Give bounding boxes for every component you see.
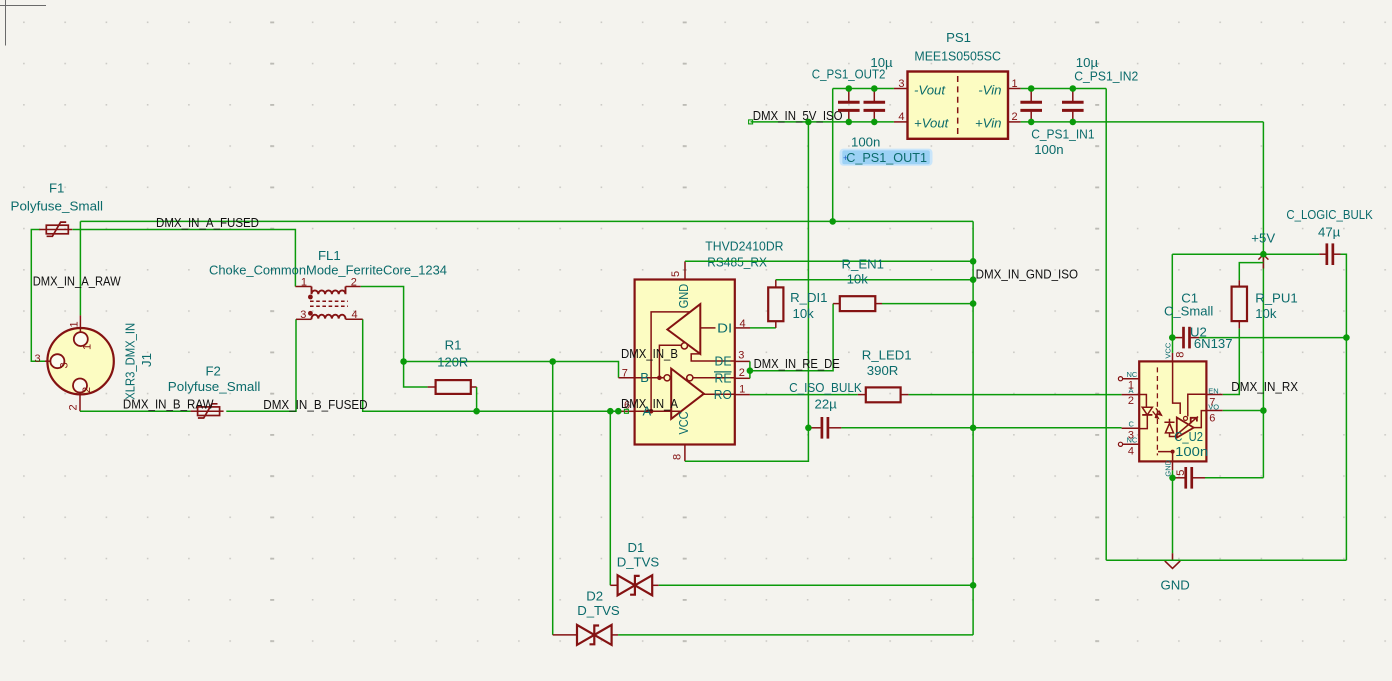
- THVD pin name RO: [714, 387, 732, 402]
- diode D1 D_TVS: [618, 575, 653, 595]
- opto pin 5 stub GND: [1172, 461, 1174, 470]
- svg-text:10k: 10k: [847, 272, 869, 287]
- net label anchor square DMX_IN_A: [624, 409, 628, 413]
- svg-text:C_PS1_OUT2: C_PS1_OUT2: [812, 66, 886, 81]
- THVD pin 1 stub: [735, 394, 750, 396]
- wire net GND_ISO vertical: [972, 221, 974, 635]
- ref U2: [1190, 324, 1207, 339]
- resistor R_EN1 10k: [840, 296, 876, 311]
- D1 lead left: [610, 584, 617, 586]
- svg-text:Polyfuse_Small: Polyfuse_Small: [168, 379, 261, 394]
- THVD pin name DI: [717, 320, 732, 335]
- opto pin name NC (1): [1127, 370, 1138, 379]
- IC U2 6N137 body: [1139, 361, 1206, 461]
- PS1 pin name -Vin: [978, 82, 1001, 97]
- wire DMX_IN_B_FUSED from FL1 pin4: [363, 319, 619, 411]
- resistor R_DI1 10k: [768, 287, 783, 321]
- opto pin 2 stub: [1122, 394, 1140, 396]
- R_LED1 lead right: [901, 394, 909, 396]
- ref C_LOGIC_BULK: [1286, 207, 1372, 222]
- svg-text:-Vin: -Vin: [978, 82, 1001, 97]
- ref R1: [445, 338, 462, 353]
- svg-text:GND: GND: [676, 284, 691, 309]
- wire R1 right to net A: [476, 387, 478, 411]
- wire +5V down to C1: [1171, 254, 1173, 337]
- power label +5V: [1251, 231, 1275, 246]
- R_PU1 lead bottom: [1238, 321, 1240, 329]
- THVD RE bubble: [687, 375, 693, 381]
- PS1 pin number 1: [1012, 78, 1018, 90]
- R_EN1 lead right: [875, 303, 882, 305]
- wire -Vin to GND rail vertical: [1105, 89, 1107, 561]
- capacitor C_PS1_IN2: [1062, 89, 1084, 122]
- ref RS485_RX: [707, 255, 767, 270]
- svg-text:DMX_IN_B: DMX_IN_B: [621, 346, 678, 361]
- polyfuse F1: [39, 222, 72, 236]
- FL1 pin1 stub: [295, 286, 311, 288]
- svg-text:C_PS1_IN2: C_PS1_IN2: [1074, 68, 1138, 83]
- IC PS1 MEE1S0505SC body: [908, 72, 1009, 139]
- label DMX_IN_RX: [1231, 379, 1298, 394]
- svg-text:6: 6: [1209, 412, 1215, 424]
- THVD pin 8 stub: [684, 445, 686, 462]
- ref C_PS1_OUT1 (highlighted): [846, 150, 927, 165]
- ref C_U2: [1174, 429, 1203, 444]
- opto pin 3 stub: [1122, 427, 1140, 429]
- svg-text:R_EN1: R_EN1: [842, 256, 885, 271]
- net label anchor square DMX_IN_5V_ISO: [749, 120, 753, 124]
- svg-text:4: 4: [1128, 445, 1134, 457]
- svg-text:R_PU1: R_PU1: [1255, 290, 1298, 305]
- THVD DE internal staircase: [691, 354, 735, 361]
- wire D2 to GND_ISO: [618, 634, 973, 636]
- FL1 pin number 4: [352, 309, 358, 321]
- svg-text:6N137: 6N137: [1194, 336, 1233, 351]
- polyfuse F2: [191, 404, 224, 418]
- wire DMX_IN_A_RAW pin3 to F1: [31, 230, 45, 362]
- wire DMX_IN_A_FUSED vertical from XLR pin1: [79, 221, 81, 315]
- svg-text:XLR3_DMX_IN: XLR3_DMX_IN: [123, 323, 138, 400]
- THVD RE internal line: [693, 377, 735, 379]
- wire C1 right to GND vertical: [1199, 337, 1346, 339]
- wire R_PU1 top to +5V: [1239, 263, 1263, 281]
- opto pin 8 stub VCC: [1172, 353, 1174, 362]
- svg-text:B: B: [640, 370, 649, 385]
- value 10k (R_EN1): [847, 272, 869, 287]
- J1 pin number 3: [35, 353, 41, 365]
- IC U-THVD2410DR body: [635, 280, 735, 445]
- svg-text:8: 8: [672, 454, 684, 460]
- svg-text:J1: J1: [139, 353, 154, 367]
- svg-text:DMX_IN_A_FUSED: DMX_IN_A_FUSED: [156, 215, 259, 230]
- value Choke_CommonMode_FerriteCore_1234: [209, 262, 447, 277]
- value C_Small: [1164, 303, 1213, 318]
- opto LED cathode bar: [1142, 414, 1152, 416]
- svg-text:C_PS1_IN1: C_PS1_IN1: [1031, 127, 1094, 142]
- label DMX_IN_B_RAW: [123, 397, 214, 412]
- wire R_EN1 to GND_ISO: [882, 303, 973, 305]
- opto buffer triangle: [1177, 418, 1194, 438]
- THVD internal node dot A: [649, 409, 654, 414]
- FL1 polarity dots: [308, 295, 313, 316]
- svg-text:4: 4: [352, 309, 358, 321]
- value 10k (R_PU1): [1255, 306, 1277, 321]
- svg-text:C_U2: C_U2: [1174, 429, 1203, 444]
- opto GND internal: [1158, 452, 1173, 462]
- svg-text:VCC: VCC: [1163, 342, 1172, 358]
- opto internal gnd dot: [1171, 450, 1175, 454]
- opto pin1 NC circle: [1118, 377, 1122, 381]
- FL1 pin2 stub: [346, 286, 361, 288]
- svg-text:DMX_IN_GND_ISO: DMX_IN_GND_ISO: [976, 267, 1078, 282]
- resistor R_LED1 390R: [866, 387, 901, 402]
- ref D2: [586, 588, 603, 603]
- opto pin name VO: [1208, 403, 1219, 412]
- capacitor C_ISO_BULK 22u: [808, 417, 841, 439]
- label DMX_IN_B_FUSED: [263, 397, 367, 412]
- THVD pin name RE: [715, 370, 732, 385]
- power label GND: [1161, 577, 1190, 592]
- svg-text:1: 1: [739, 384, 745, 396]
- PS1 isolation dashed line: [957, 76, 959, 135]
- wire R_PU1 bottom to EN pin7: [1223, 329, 1240, 395]
- svg-text:PS1: PS1: [946, 30, 971, 45]
- THVD pin number 8: [672, 454, 684, 460]
- opto output slash: [1175, 417, 1198, 436]
- THVD pin name DE: [715, 354, 732, 369]
- value 100n (C_PS1_OUT1): [851, 134, 880, 149]
- PS1 pin 4 stub: [894, 121, 908, 123]
- wire C_U2 right to +5V vertical: [1205, 477, 1263, 479]
- svg-text:47µ: 47µ: [1318, 224, 1341, 239]
- svg-text:+: +: [843, 153, 848, 163]
- THVD pin number 5: [670, 271, 682, 277]
- ref C_PS1_IN1: [1031, 127, 1094, 142]
- wire +Vin rail right: [1021, 121, 1264, 123]
- J1 pad label 2: [81, 387, 93, 393]
- THVD pin number 3: [738, 350, 744, 362]
- svg-text:R_LED1: R_LED1: [862, 347, 912, 362]
- svg-text:3: 3: [59, 362, 71, 368]
- svg-text:DMX_IN_RE_DE: DMX_IN_RE_DE: [754, 356, 840, 371]
- svg-text:3: 3: [35, 353, 41, 365]
- value 100n (C_U2): [1175, 444, 1208, 459]
- ref C1: [1181, 290, 1198, 305]
- R1 lead right: [471, 386, 477, 388]
- svg-text:FL1: FL1: [318, 248, 341, 263]
- svg-text:C: C: [1129, 419, 1135, 428]
- diode D2 D_TVS: [577, 625, 612, 645]
- THVD RO internal line: [704, 393, 735, 395]
- wire FL1 pin2 to DMX_IN_B: [361, 287, 404, 362]
- opto light arrows: [1153, 408, 1162, 418]
- value D_TVS (D2): [577, 603, 620, 618]
- PS1 pin number 3: [898, 78, 904, 90]
- wire THVD pin8 VCC to 5V_ISO: [685, 122, 809, 461]
- wire GND node down: [1172, 478, 1174, 554]
- opto pin number 6: [1209, 412, 1215, 424]
- svg-text:R1: R1: [445, 338, 462, 353]
- svg-text:3: 3: [738, 350, 744, 362]
- power symbol +5V: [1258, 255, 1268, 269]
- opto pin4 NC circle: [1118, 442, 1122, 446]
- opto pin name A: [1129, 386, 1134, 395]
- THVD B input line: [635, 377, 664, 379]
- svg-text:D_TVS: D_TVS: [577, 603, 620, 618]
- value 6N137: [1194, 336, 1233, 351]
- PS1 pin 1 stub: [1008, 88, 1021, 90]
- THVD pin 5 stub: [684, 261, 686, 279]
- FL1 pin3 stub: [296, 318, 312, 320]
- R_EN1 lead left: [833, 303, 840, 305]
- THVD driver triangle: [667, 304, 700, 354]
- J1 pad label 1: [82, 344, 94, 350]
- label DMX_IN_A_RAW: [33, 273, 121, 288]
- svg-text:120R: 120R: [437, 354, 468, 369]
- wire -Vout to A_FUSED junction: [832, 89, 834, 222]
- J1 pin number 1: [69, 321, 81, 327]
- connector J1 XLR body: [47, 328, 113, 394]
- wire pin5 to C_U2 node: [1172, 470, 1174, 478]
- value 22µ: [815, 396, 838, 411]
- svg-text:3: 3: [300, 309, 306, 321]
- ref C_PS1_IN2: [1074, 68, 1138, 83]
- THVD DI internal line: [700, 327, 715, 329]
- svg-text:Polyfuse_Small: Polyfuse_Small: [11, 199, 104, 214]
- svg-text:2: 2: [1128, 395, 1134, 407]
- svg-text:-Vout: -Vout: [914, 82, 946, 97]
- svg-text:RO: RO: [714, 387, 732, 402]
- svg-text:DMX_IN_RX: DMX_IN_RX: [1231, 379, 1298, 394]
- value 100n (C_PS1_IN1): [1034, 142, 1063, 157]
- opto pin name GND: [1163, 459, 1172, 476]
- THVD pin 6 stub: [620, 410, 635, 412]
- opto pin number 2: [1128, 395, 1134, 407]
- THVD pin 2 stub: [735, 377, 750, 379]
- J1 pin3 circle: [50, 354, 64, 368]
- ref J1: [139, 353, 154, 367]
- capacitor C_LOGIC_BULK 47u: [1319, 243, 1340, 265]
- svg-text:7: 7: [622, 368, 628, 380]
- THVD driver output bubble: [681, 343, 687, 349]
- svg-text:GND: GND: [1163, 459, 1172, 476]
- label DMX_IN_RE_DE: [754, 356, 840, 371]
- svg-text:1: 1: [1012, 78, 1018, 90]
- THVD pin number 1: [739, 384, 745, 396]
- value D_TVS (D1): [617, 554, 660, 569]
- cursor mark: [843, 153, 848, 163]
- svg-text:DMX_IN_5V_ISO: DMX_IN_5V_ISO: [753, 108, 843, 123]
- THVD RE overline: [714, 371, 732, 373]
- wire GND rail: [1106, 559, 1346, 561]
- THVD B internal path: [659, 345, 681, 378]
- ref R_EN1: [842, 256, 885, 271]
- svg-text:4: 4: [898, 111, 904, 123]
- FL1 pin4 stub: [346, 318, 363, 320]
- value 120R: [437, 354, 468, 369]
- THVD internal node dot B: [657, 376, 662, 381]
- ref R_DI1: [790, 290, 827, 305]
- FL1 pin number 2: [351, 276, 357, 288]
- D1 lead right: [652, 584, 659, 586]
- svg-text:390R: 390R: [867, 363, 899, 378]
- opto pin number 5: [1175, 470, 1187, 476]
- wire RE_DE to R_EN1: [750, 304, 833, 371]
- svg-text:C_LOGIC_BULK: C_LOGIC_BULK: [1286, 207, 1372, 222]
- opto LED cathode path: [1139, 415, 1147, 429]
- wire R_LED1 to opto pin2: [909, 394, 1122, 396]
- THVD B input bubble: [664, 375, 670, 381]
- J1 pad label 3: [59, 362, 71, 368]
- opto pin number 4: [1128, 445, 1134, 457]
- wire C_LOGIC_BULK to GND vertical: [1341, 254, 1347, 560]
- ref C_PS1_OUT2: [812, 66, 886, 81]
- svg-text:D1: D1: [628, 540, 645, 555]
- PS1 pin name +Vout: [914, 115, 950, 130]
- label DMX_IN_B: [621, 346, 678, 361]
- inductor FL1 winding 2: [312, 315, 346, 320]
- THVD A input line: [635, 410, 681, 412]
- R_DI1 lead bottom: [775, 321, 777, 328]
- label DMX_IN_A_FUSED: [156, 215, 259, 230]
- svg-text:2: 2: [68, 404, 80, 410]
- R1 lead left: [428, 386, 436, 388]
- svg-text:GND: GND: [1161, 577, 1190, 592]
- svg-text:100n: 100n: [1175, 444, 1208, 459]
- opto pin name C: [1129, 419, 1135, 428]
- svg-text:F1: F1: [49, 181, 64, 196]
- svg-text:MEE1S0505SC: MEE1S0505SC: [914, 48, 1001, 63]
- value 390R: [867, 363, 899, 378]
- svg-text:5: 5: [670, 271, 682, 277]
- svg-text:DMX_IN_A_RAW: DMX_IN_A_RAW: [33, 273, 121, 288]
- value MEE1S0505SC: [914, 48, 1001, 63]
- svg-text:D_TVS: D_TVS: [617, 554, 660, 569]
- opto pin number 1: [1128, 380, 1134, 392]
- svg-text:DMX_IN_A: DMX_IN_A: [621, 396, 678, 411]
- ref PS1: [946, 30, 971, 45]
- svg-text:+5V: +5V: [1251, 231, 1275, 246]
- svg-text:8: 8: [1175, 352, 1187, 358]
- THVD pin name B: [640, 370, 649, 385]
- THVD pin name A: [643, 404, 652, 419]
- THVD pin number 4: [740, 318, 746, 330]
- capacitor C_PS1_OUT2: [838, 89, 860, 122]
- wire pin8 to C1 node: [1172, 338, 1174, 353]
- svg-text:3: 3: [898, 78, 904, 90]
- resistor R1 120R: [436, 380, 471, 394]
- capacitor C_PS1_OUT1: [864, 89, 886, 122]
- opto pin 1 stub NC: [1123, 378, 1140, 380]
- wire R1 left leg: [404, 362, 428, 388]
- THVD pin number 6: [624, 399, 630, 411]
- opto pin name NC (4): [1127, 436, 1138, 445]
- capacitor C_PS1_IN1: [1020, 89, 1042, 122]
- svg-text:1: 1: [69, 321, 81, 327]
- svg-text:2: 2: [1012, 111, 1018, 123]
- wire DI to R_DI1: [750, 327, 776, 329]
- value 10µ (C_PS1_IN2): [1076, 55, 1099, 70]
- svg-text:5: 5: [1175, 470, 1187, 476]
- wire C1 left from VCC node: [1172, 337, 1175, 339]
- wire VO to DMX_IN_RX: [1223, 410, 1264, 412]
- opto pin number 8: [1175, 352, 1187, 358]
- wire D1 to GND_ISO: [659, 584, 973, 586]
- opto pin 4 stub NC: [1123, 443, 1140, 445]
- svg-text:2: 2: [739, 367, 745, 379]
- wire +Vout rail DMX_IN_5V_ISO: [751, 121, 894, 123]
- svg-text:Choke_CommonMode_FerriteCore_1: Choke_CommonMode_FerriteCore_1234: [209, 262, 447, 277]
- wire DMX_IN_B_RAW: [80, 410, 191, 412]
- J1 pin 1 stub: [79, 315, 81, 332]
- opto photodiode leads: [1170, 419, 1177, 437]
- R_DI1 lead top: [775, 280, 777, 288]
- ref R_LED1: [862, 347, 912, 362]
- wire F2 to FL1 pin3: [226, 319, 296, 411]
- J1 pin 3 stub: [45, 360, 50, 362]
- capacitor C_U2 100n: [1173, 467, 1206, 489]
- R_LED1 lead left: [858, 394, 866, 396]
- opto LED anode path: [1139, 395, 1146, 408]
- capacitor C1 C_Small: [1174, 327, 1199, 349]
- THVD pin 3 stub: [735, 360, 750, 362]
- svg-text:1: 1: [82, 344, 94, 350]
- opto pin number 3: [1128, 429, 1134, 441]
- wire RE-DE tie: [749, 361, 751, 378]
- wire to D1 from net A junction: [609, 411, 611, 585]
- opto output internal: [1194, 411, 1207, 428]
- svg-text:DMX_IN_B_FUSED: DMX_IN_B_FUSED: [263, 397, 367, 412]
- ref C_ISO_BULK: [789, 380, 862, 395]
- PS1 pin name -Vout: [914, 82, 946, 97]
- svg-text:+Vout: +Vout: [914, 115, 950, 130]
- svg-text:EN: EN: [1208, 387, 1218, 396]
- opto internal dashed line: [1156, 367, 1158, 455]
- THVD pin number 7: [622, 368, 628, 380]
- wire -Vin rail right: [1021, 88, 1107, 90]
- wire DMX_IN_B to THVD pin7: [404, 362, 619, 378]
- wire to D2 from net B junction: [552, 362, 554, 635]
- opto pin number 7: [1209, 396, 1215, 408]
- opto pin name EN: [1208, 387, 1218, 396]
- svg-text:D2: D2: [586, 588, 603, 603]
- wire -Vout rail: [833, 88, 894, 90]
- svg-text:VCC: VCC: [676, 412, 691, 435]
- svg-text:10k: 10k: [1255, 306, 1277, 321]
- wire F1 to FL1 pin1: [73, 230, 296, 287]
- THVD A internal path: [651, 312, 690, 411]
- wire +5V vertical from PS1: [1262, 122, 1264, 478]
- J1 pin2 circle: [73, 379, 87, 393]
- ref F1: [49, 181, 64, 196]
- value XLR3_DMX_IN (J1): [123, 323, 138, 400]
- svg-text:7: 7: [1209, 396, 1215, 408]
- opto pin name VCC: [1163, 342, 1172, 358]
- svg-text:+Vin: +Vin: [975, 115, 1002, 130]
- ref F2: [206, 364, 221, 379]
- label DMX_IN_5V_ISO: [753, 108, 843, 123]
- wire DMX_IN_A_FUSED horizontal: [80, 220, 973, 222]
- value THVD2410DR: [705, 239, 783, 254]
- resistor R_PU1 10k: [1232, 287, 1247, 322]
- svg-text:C_PS1_OUT1: C_PS1_OUT1: [846, 150, 927, 165]
- svg-text:2: 2: [81, 387, 93, 393]
- svg-text:DMX_IN_B_RAW: DMX_IN_B_RAW: [123, 397, 214, 412]
- THVD pin name GND: [676, 284, 691, 309]
- svg-text:10k: 10k: [793, 306, 815, 321]
- svg-text:4: 4: [740, 318, 746, 330]
- svg-text:1: 1: [1128, 380, 1134, 392]
